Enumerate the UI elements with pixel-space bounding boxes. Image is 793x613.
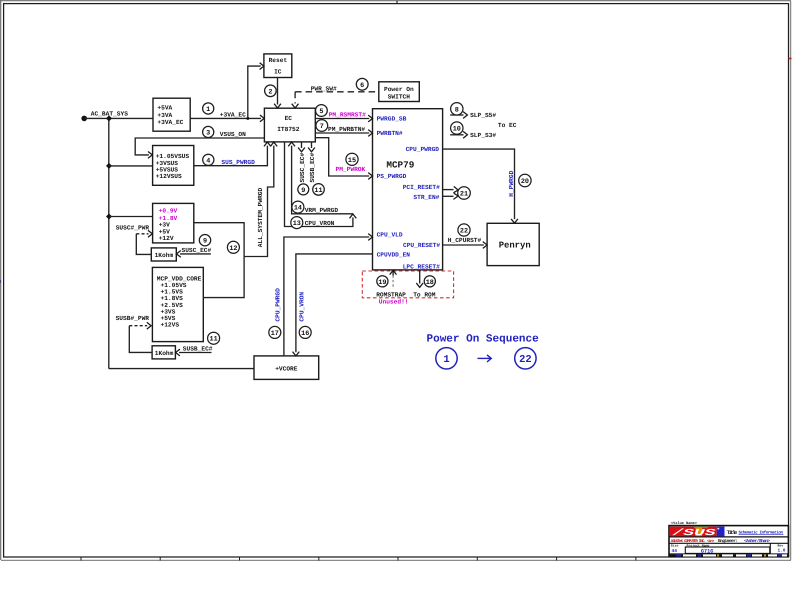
svg-text:9: 9: [301, 187, 305, 195]
svg-text:8: 8: [455, 106, 459, 114]
arrowhead into EC bottom (VRM_PWRGD): [288, 142, 295, 146]
svg-text:SUSC_EC#: SUSC_EC#: [299, 153, 306, 183]
arrowhead up into MCP79 bottom (ROMSTRAP): [390, 270, 397, 274]
svg-text:1Kohm: 1Kohm: [155, 350, 174, 357]
svg-text:SUSC_EC#: SUSC_EC#: [182, 247, 212, 254]
seq circle 9 at 1Kohm: [199, 235, 210, 246]
regulator box SUSC rails: [153, 203, 194, 243]
seq circle 18: [424, 276, 435, 287]
svg-text:IC: IC: [274, 68, 282, 75]
svg-text:17: 17: [271, 330, 279, 338]
svg-text:7: 7: [320, 123, 324, 131]
svg-text:4: 4: [206, 157, 210, 165]
svg-text:Rev: Rev: [778, 543, 784, 547]
arrowhead into +VCORE top: [293, 352, 300, 356]
svg-text:SUSB_EC#: SUSB_EC#: [309, 153, 316, 183]
svg-text:To ROM: To ROM: [413, 292, 436, 299]
svg-text:IT8752: IT8752: [277, 126, 300, 133]
project name inner box: [685, 547, 770, 553]
resistor 1Kohm (SUSC_EC#): [151, 248, 176, 261]
svg-text:PWR_SW#: PWR_SW#: [311, 85, 337, 92]
date strip dark: [670, 554, 788, 556]
EC IT8752: [264, 108, 315, 142]
arrowhead down SUSB_EC# stub: [308, 148, 315, 152]
svg-text:22: 22: [519, 354, 532, 366]
wire branch up to Reset IC: [248, 66, 261, 118]
seq circle 16: [299, 326, 311, 338]
arrowhead into EC left: [260, 115, 264, 122]
wire SUSC_EC# into 1Kohm: [180, 253, 211, 255]
wire VSUS_ON from EC to VSUS box: [135, 138, 264, 155]
date strip segments: [676, 554, 787, 556]
svg-text:CPUVDD_EN: CPUVDD_EN: [377, 252, 411, 259]
wire LPC_RESET# down To ROM: [419, 270, 421, 284]
seq circle 15: [346, 153, 358, 165]
arrowhead into SUSC box (SUSC#_PWR): [148, 230, 152, 237]
svg-text:SUSC#_PWR: SUSC#_PWR: [116, 225, 150, 232]
svg-text:Penryn: Penryn: [499, 241, 531, 251]
svg-text:SLP_S5#: SLP_S5#: [470, 112, 496, 119]
svg-text:6: 6: [360, 82, 364, 90]
svg-text:+12VS: +12VS: [161, 322, 180, 329]
svg-text:15: 15: [348, 157, 356, 165]
svg-text:H_PWRGD: H_PWRGD: [508, 170, 515, 196]
svg-text:2: 2: [268, 88, 272, 96]
divider under row1: [669, 536, 788, 538]
svg-text:PWRGD_SB: PWRGD_SB: [377, 116, 407, 123]
wire +3VA_EC from box to EC: [190, 117, 261, 119]
svg-text:19: 19: [378, 279, 386, 287]
wire H_CPURST# MCP79 to Penryn: [443, 244, 484, 246]
wire ALL_SYSTEM_PWRGD rail-good into EC: [244, 146, 274, 257]
wire SUS_PWRGD from VSUS box to EC bottom: [194, 146, 268, 166]
border tick top: [396, 1, 398, 4]
wire SUSB#_PWR dashed into MCP_VDD_CORE box: [129, 326, 152, 353]
svg-text:+3VA_EC: +3VA_EC: [157, 119, 183, 126]
svg-text:12: 12: [229, 245, 237, 253]
svg-text:+3VA: +3VA: [157, 112, 172, 119]
svg-text:LPC_RESET#: LPC_RESET#: [403, 263, 440, 270]
arrowhead into MCP_VDD_CORE box (SUSB#_PWR): [147, 322, 151, 329]
wire rail to +VCORE bottom horizontal: [109, 368, 254, 370]
svg-text:1: 1: [206, 106, 210, 114]
arrowhead into MCP79 (PWRGD_SB): [368, 115, 372, 122]
arrowhead into 1Kohm right: [177, 251, 181, 258]
seq circle 12: [227, 241, 239, 253]
seq circle 20: [519, 174, 531, 186]
svg-text:ALL_SYSTEM_PWRGD: ALL_SYSTEM_PWRGD: [257, 188, 264, 248]
seq circle 6: [356, 78, 368, 90]
svg-text:+12VSUS: +12VSUS: [156, 173, 182, 180]
svg-text:Unused!!: Unused!!: [379, 298, 409, 305]
svg-text:CPU_VLD: CPU_VLD: [377, 231, 403, 238]
regulator box MCP_VDD_CORE rails: [152, 267, 203, 341]
regulator box VSUS rails: [153, 146, 194, 186]
wire rail to SUSC box: [109, 216, 153, 218]
wire CPU_VRON from EC bottom: [285, 142, 353, 226]
svg-text:VSUS_ON: VSUS_ON: [220, 131, 246, 138]
svg-text:To EC: To EC: [498, 122, 517, 129]
svg-text:Size: Size: [671, 544, 679, 548]
wire CPU_PWRGD MCP79 to Penryn (H_PWRGD): [443, 149, 515, 219]
title block outer frame: [669, 526, 788, 557]
svg-text:11: 11: [314, 187, 322, 195]
wire AC_BAT_SYS horizontal: [84, 117, 153, 119]
sheet outer edge right: [790, 1, 792, 560]
seq circle 7: [316, 120, 328, 132]
svg-text:+12V: +12V: [159, 235, 174, 242]
regulator box +5VA/+3VA/+3VA_EC: [153, 98, 190, 131]
svg-text:44: 44: [672, 548, 678, 554]
seq circle 5: [316, 105, 328, 117]
seq circle 2: [265, 85, 277, 97]
stub STR_EN# with arrow: [443, 195, 454, 197]
wire SUSC#_PWR dashed into SUSC box: [136, 234, 151, 255]
arrowhead into EC top (PWR_SW#): [292, 104, 299, 108]
wire SUSC box right to MCP_VDD_CORE right: [194, 223, 244, 298]
svg-text:+VCORE: +VCORE: [275, 366, 298, 373]
svg-text:PM_PWRBTN#: PM_PWRBTN#: [328, 126, 365, 133]
arrowhead into EC bottom (ALL_SYSTEM_PWRGD): [270, 142, 277, 146]
svg-text:Title: Title: [727, 530, 738, 536]
arrowhead into Reset IC: [260, 63, 264, 70]
svg-text:+5VA: +5VA: [157, 105, 172, 112]
svg-text:+1.05VSUS: +1.05VSUS: [156, 153, 190, 160]
svg-text:1Kohm: 1Kohm: [155, 252, 174, 259]
wire PM_RSMRST# EC to MCP79: [315, 118, 369, 120]
svg-text:16: 16: [301, 330, 309, 338]
sheet outer edge top: [0, 0, 791, 2]
wire left power rail vertical: [108, 118, 110, 368]
wire PWR_SW# dashed: [295, 92, 377, 104]
svg-text:SUS_PWRGD: SUS_PWRGD: [221, 159, 255, 166]
svg-text:10: 10: [453, 126, 461, 134]
arrowhead down (To ROM): [416, 283, 423, 287]
node AC_BAT_SYS dot: [81, 116, 87, 122]
arrowhead into 1Kohm2 right: [176, 349, 180, 356]
ASUS logo blue gradient block: [717, 527, 725, 537]
chipset MCP79: [373, 109, 443, 270]
svg-text:CPU_VRON: CPU_VRON: [305, 220, 335, 227]
svg-text:MCP79: MCP79: [386, 159, 414, 170]
seq circle 21: [458, 187, 471, 200]
big circle 22: [515, 348, 536, 369]
ASUS logo green sliver: [694, 527, 708, 529]
svg-text:+3VA_EC: +3VA_EC: [220, 112, 246, 119]
Power On SWITCH box: [379, 82, 420, 102]
arrow between: [478, 355, 492, 362]
wire SUSB_EC# into 1Kohm: [179, 352, 212, 354]
stub PCI_RESET# with arrow: [443, 189, 454, 191]
seq circle 17: [269, 326, 281, 338]
arrowhead into Penryn top: [511, 219, 518, 223]
svg-text:1.0: 1.0: [778, 549, 786, 554]
svg-text:18: 18: [426, 279, 434, 287]
svg-text:VRM_PWRGD: VRM_PWRGD: [305, 207, 339, 214]
svg-text:Power On: Power On: [384, 86, 414, 93]
svg-text:3: 3: [206, 130, 210, 138]
Reset IC U-reset: [264, 54, 292, 78]
svg-text:SUSB_EC#: SUSB_EC#: [183, 346, 213, 353]
junction diamond at rail y118: [106, 115, 112, 121]
svg-text:G71G: G71G: [701, 548, 713, 554]
seq circle 13: [291, 217, 303, 229]
seq circle 10: [451, 122, 463, 134]
wire ROMSTRAP dashed grey into MCP79 bottom: [392, 276, 394, 289]
svg-text:CPU_PWRGD: CPU_PWRGD: [406, 146, 440, 153]
arrowhead into MCP79 (CPU_VLD): [368, 234, 372, 241]
svg-text:PCI_RESET#: PCI_RESET#: [403, 184, 440, 191]
logo (R) mark: [717, 528, 719, 530]
divider above date strip: [669, 553, 788, 555]
svg-text:13: 13: [293, 220, 301, 228]
seq circle 19: [377, 276, 388, 287]
arrowhead down SUSC_EC# stub: [298, 148, 305, 152]
svg-text:Power On Sequence: Power On Sequence: [427, 334, 540, 346]
wire SUSB_EC# stub from EC bottom: [311, 142, 313, 148]
svg-text:EC: EC: [285, 115, 293, 122]
svg-text:CPU_VRON: CPU_VRON: [299, 292, 306, 322]
sheet outer edge bottom: [1, 559, 791, 561]
border ticks bottom: [81, 557, 636, 560]
ROMSTRAP unused red dashed box: [362, 271, 453, 305]
wire rail to VSUS box: [109, 165, 153, 167]
arrowhead into EC top (from Reset IC): [274, 104, 281, 108]
junction diamond at rail y216: [106, 214, 112, 220]
seq circle 3: [203, 126, 214, 137]
wire PM_PWRBTN# EC to MCP79: [315, 132, 369, 134]
svg-text:CPU_RESET#: CPU_RESET#: [403, 242, 440, 249]
ASUS logo red field: [670, 527, 717, 537]
svg-text:STR_EN#: STR_EN#: [413, 194, 439, 201]
svg-text:21: 21: [460, 191, 468, 199]
svg-text:14: 14: [294, 205, 302, 213]
rev cell divider: [769, 543, 771, 554]
arrowhead up into VRM_PWRGD wire: [350, 214, 357, 218]
seq circle 1: [203, 103, 214, 114]
big circle 1: [436, 348, 457, 369]
sheet outer edge left: [0, 0, 2, 560]
arrowhead into Penryn left: [483, 242, 487, 249]
svg-text:CPU_PWRGD: CPU_PWRGD: [275, 288, 282, 322]
wire CPUVDD_EN MCP79 to +VCORE: [296, 254, 373, 352]
svg-text:PS_PWRGD: PS_PWRGD: [377, 173, 407, 180]
wire VRM_PWRGD into EC bottom: [292, 146, 353, 214]
svg-text:20: 20: [521, 178, 529, 186]
seq circle 22: [458, 224, 470, 236]
seq circle 4: [203, 154, 214, 165]
divider under row2: [669, 542, 788, 544]
svg-text:SLP_S3#: SLP_S3#: [470, 132, 496, 139]
svg-text:Reset: Reset: [269, 57, 288, 64]
svg-text:PM_RSMRST#: PM_RSMRST#: [329, 112, 366, 119]
svg-text:PWRBTN#: PWRBTN#: [377, 130, 403, 137]
seq circle 9 at EC: [298, 184, 309, 195]
regulator +VCORE: [254, 356, 319, 380]
arrowhead into MCP79 (PWRBTN#): [368, 130, 372, 137]
junction diamond at rail y166: [106, 163, 112, 169]
border tick right red: [789, 58, 792, 60]
svg-text:SUSB#_PWR: SUSB#_PWR: [116, 315, 150, 322]
stub SLP_S5# with arrow: [450, 114, 463, 116]
svg-text:22: 22: [460, 228, 468, 236]
svg-text:PM_PWROK: PM_PWROK: [336, 166, 366, 173]
ASUS logo orange U block: [696, 527, 703, 536]
svg-text:+3V: +3V: [159, 221, 170, 228]
junction dot at reset branch: [246, 117, 249, 120]
svg-text:5: 5: [319, 108, 323, 116]
svg-text:1: 1: [443, 354, 449, 366]
wire SUSC_EC# stub from EC bottom: [301, 142, 303, 148]
seq circle 11 at 1Kohm: [208, 332, 220, 344]
seq circle 11 at EC: [313, 184, 325, 196]
svg-text:SWITCH: SWITCH: [388, 93, 411, 100]
arrowhead into MCP79 (PS_PWRGD): [368, 173, 372, 180]
wire Reset IC to EC top: [277, 78, 279, 105]
CPU Penryn: [487, 223, 539, 265]
svg-text:H_CPURST#: H_CPURST#: [448, 237, 482, 244]
arrowhead into VSUS box: [148, 152, 152, 159]
seq circle 14: [292, 201, 304, 213]
svg-text:11: 11: [210, 336, 218, 344]
stub SLP_S3# with arrow: [450, 134, 463, 136]
resistor 1Kohm (SUSB_EC#): [152, 346, 175, 359]
border tick left blue: [0, 280, 1, 283]
svg-text:9: 9: [203, 238, 207, 246]
arrowhead into EC bottom (SUS_PWRGD): [264, 142, 271, 146]
wire CPU_PWRGD +VCORE to MCP79 CPU_VLD: [284, 237, 369, 356]
seq circle 8: [451, 103, 463, 115]
svg-text:+0.9V: +0.9V: [159, 207, 178, 214]
wire PM_PWROK EC to MCP79 PS_PWRGD: [315, 138, 369, 176]
